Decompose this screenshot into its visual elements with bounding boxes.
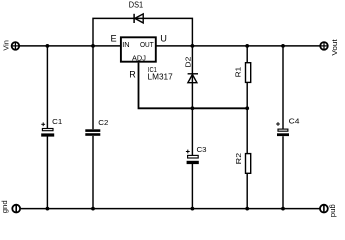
svg-text:gnd: gnd: [329, 204, 338, 217]
wire ground rail: [21, 208, 320, 210]
svg-text:R2: R2: [234, 153, 243, 165]
wire C4 column lower: [282, 136, 284, 208]
plus sign C1: [41, 122, 45, 126]
junction ground rail C3: [191, 207, 195, 211]
wire output rail IC OUT to Vout: [156, 45, 319, 47]
wire C3 column lower: [191, 164, 193, 209]
terminal Vin: [12, 42, 20, 50]
svg-text:IN: IN: [122, 40, 129, 49]
svg-text:E: E: [111, 33, 117, 43]
junction input rail C1: [46, 44, 50, 48]
wire D2 column output rail to node rail: [191, 46, 193, 108]
svg-text:DS1: DS1: [129, 0, 143, 9]
svg-text:C1: C1: [52, 117, 62, 126]
IC U1 LM317 box: [121, 37, 156, 61]
junction ground rail C2: [91, 207, 95, 211]
wire C3 column upper: [191, 108, 193, 155]
svg-text:C4: C4: [289, 116, 301, 125]
svg-text:gnd: gnd: [0, 200, 9, 213]
capacitor C4 (polarized): [277, 129, 289, 136]
junction node rail D2 C3: [191, 106, 195, 110]
junction node rail R1 R2: [245, 106, 249, 110]
capacitor C2: [85, 129, 100, 136]
wire input rail Vin to IC IN: [20, 45, 121, 47]
wire C2 column upper: [92, 46, 94, 129]
plus sign C3: [186, 150, 190, 154]
terminal gnd left: [12, 205, 20, 213]
wire ADJ pin down and node rail to R2: [139, 63, 248, 109]
svg-text:R: R: [129, 69, 136, 79]
svg-text:LM317: LM317: [148, 73, 173, 82]
junction ground rail C4: [281, 207, 285, 211]
svg-text:Vin: Vin: [2, 40, 11, 51]
terminal Vout: [320, 42, 328, 50]
junction output rail D2: [191, 44, 195, 48]
terminal gnd right: [320, 205, 328, 213]
svg-text:U: U: [160, 33, 167, 43]
wire C4 column upper: [282, 46, 284, 129]
svg-text:C3: C3: [197, 145, 207, 154]
resistor R1: [246, 63, 251, 83]
plus sign C4: [276, 122, 280, 126]
wire top bypass rail: [93, 18, 192, 46]
wire C1 column upper: [46, 46, 48, 128]
wire C2 column lower: [92, 136, 94, 209]
resistor R2: [246, 154, 251, 174]
svg-text:Vout: Vout: [330, 38, 339, 55]
wire C1 column lower: [46, 137, 48, 209]
diode D2: [188, 74, 198, 83]
junction output rail R1: [245, 44, 249, 48]
junction input rail C2 riser: [91, 44, 95, 48]
svg-text:D2: D2: [183, 57, 192, 68]
capacitor C1 (polarized): [41, 129, 54, 137]
diode DS1: [134, 14, 143, 23]
junction ground rail R2: [245, 207, 249, 211]
junction ground rail C1: [46, 207, 50, 211]
capacitor C3 (polarized): [187, 155, 199, 164]
svg-text:C2: C2: [98, 118, 108, 127]
svg-text:OUT: OUT: [140, 40, 154, 49]
junction output rail C4: [281, 44, 285, 48]
wire R1 R2 column: [246, 46, 248, 209]
svg-text:ADJ: ADJ: [132, 53, 146, 62]
svg-text:R1: R1: [234, 67, 243, 77]
